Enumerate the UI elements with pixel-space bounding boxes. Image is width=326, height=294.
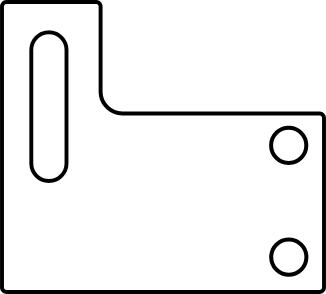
hole 2 — [271, 240, 306, 275]
slot — [31, 32, 66, 181]
hole 1 — [271, 128, 306, 163]
